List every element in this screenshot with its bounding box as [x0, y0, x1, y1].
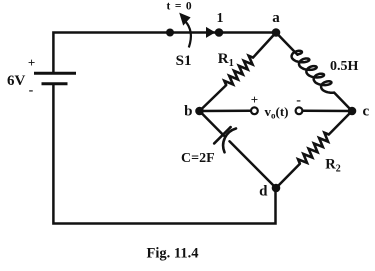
- battery V1 long plate (+): [34, 72, 76, 75]
- svg-text:R2: R2: [325, 157, 340, 175]
- svg-text:+: +: [251, 92, 258, 107]
- svg-text:0.5H: 0.5H: [330, 59, 359, 74]
- wire minus terminal to node c: [303, 110, 352, 113]
- wire battery top lead to top rail to node a: [53, 33, 276, 73]
- wire node a to resistor R1 lead: [253, 33, 276, 58]
- resistor R2 zigzag: [298, 133, 329, 164]
- svg-text:C=2F: C=2F: [181, 151, 215, 166]
- wire battery bottom lead, bottom rail, up to node d: [53, 85, 275, 224]
- capacitor C straight plate: [214, 127, 230, 143]
- output terminal plus circle: [251, 107, 258, 114]
- node d dot: [272, 184, 281, 193]
- node a dot: [272, 28, 281, 37]
- svg-text:Fig. 11.4: Fig. 11.4: [147, 246, 199, 262]
- node b dot: [195, 107, 204, 116]
- switch S1 motion arc: [185, 21, 191, 48]
- svg-text:R1: R1: [218, 51, 234, 69]
- svg-text:-: -: [296, 93, 301, 108]
- svg-text:a: a: [272, 10, 280, 26]
- wire node b to capacitor plate: [200, 111, 225, 136]
- node c dot: [348, 107, 357, 116]
- svg-text:1: 1: [217, 11, 224, 26]
- wire resistor R2 to node d lead: [276, 164, 300, 188]
- output terminal minus circle: [296, 107, 303, 114]
- wire node b to plus terminal: [200, 110, 251, 113]
- battery V1 short plate (-): [42, 82, 68, 85]
- resistor R1 zigzag: [224, 56, 253, 85]
- svg-text:S1: S1: [176, 53, 192, 69]
- switch S1 pole dot: [166, 29, 174, 37]
- svg-text:t = 0: t = 0: [167, 1, 193, 13]
- inductor L1 0.5H coil: [292, 51, 335, 93]
- svg-text:+: +: [28, 55, 35, 70]
- wire resistor R1 to node b lead: [200, 85, 227, 111]
- svg-text:c: c: [363, 104, 370, 120]
- svg-text:b: b: [184, 104, 192, 120]
- switch S1 arc arrowhead: [179, 13, 190, 26]
- svg-text:d: d: [259, 184, 268, 200]
- capacitor C curved plate: [223, 129, 236, 153]
- svg-text:vo(t): vo(t): [265, 104, 289, 121]
- wire node c to resistor R2 lead: [329, 111, 352, 135]
- wire capacitor curved plate to node d: [230, 141, 277, 188]
- svg-text:-: -: [29, 83, 34, 98]
- switch contact 1 dot: [215, 28, 224, 37]
- wire inductor to node c lead: [334, 93, 352, 111]
- switch S1 blade arrowhead pointing to contact 1: [206, 27, 215, 38]
- svg-text:6V: 6V: [7, 73, 26, 89]
- wire node a to inductor lead: [276, 33, 298, 55]
